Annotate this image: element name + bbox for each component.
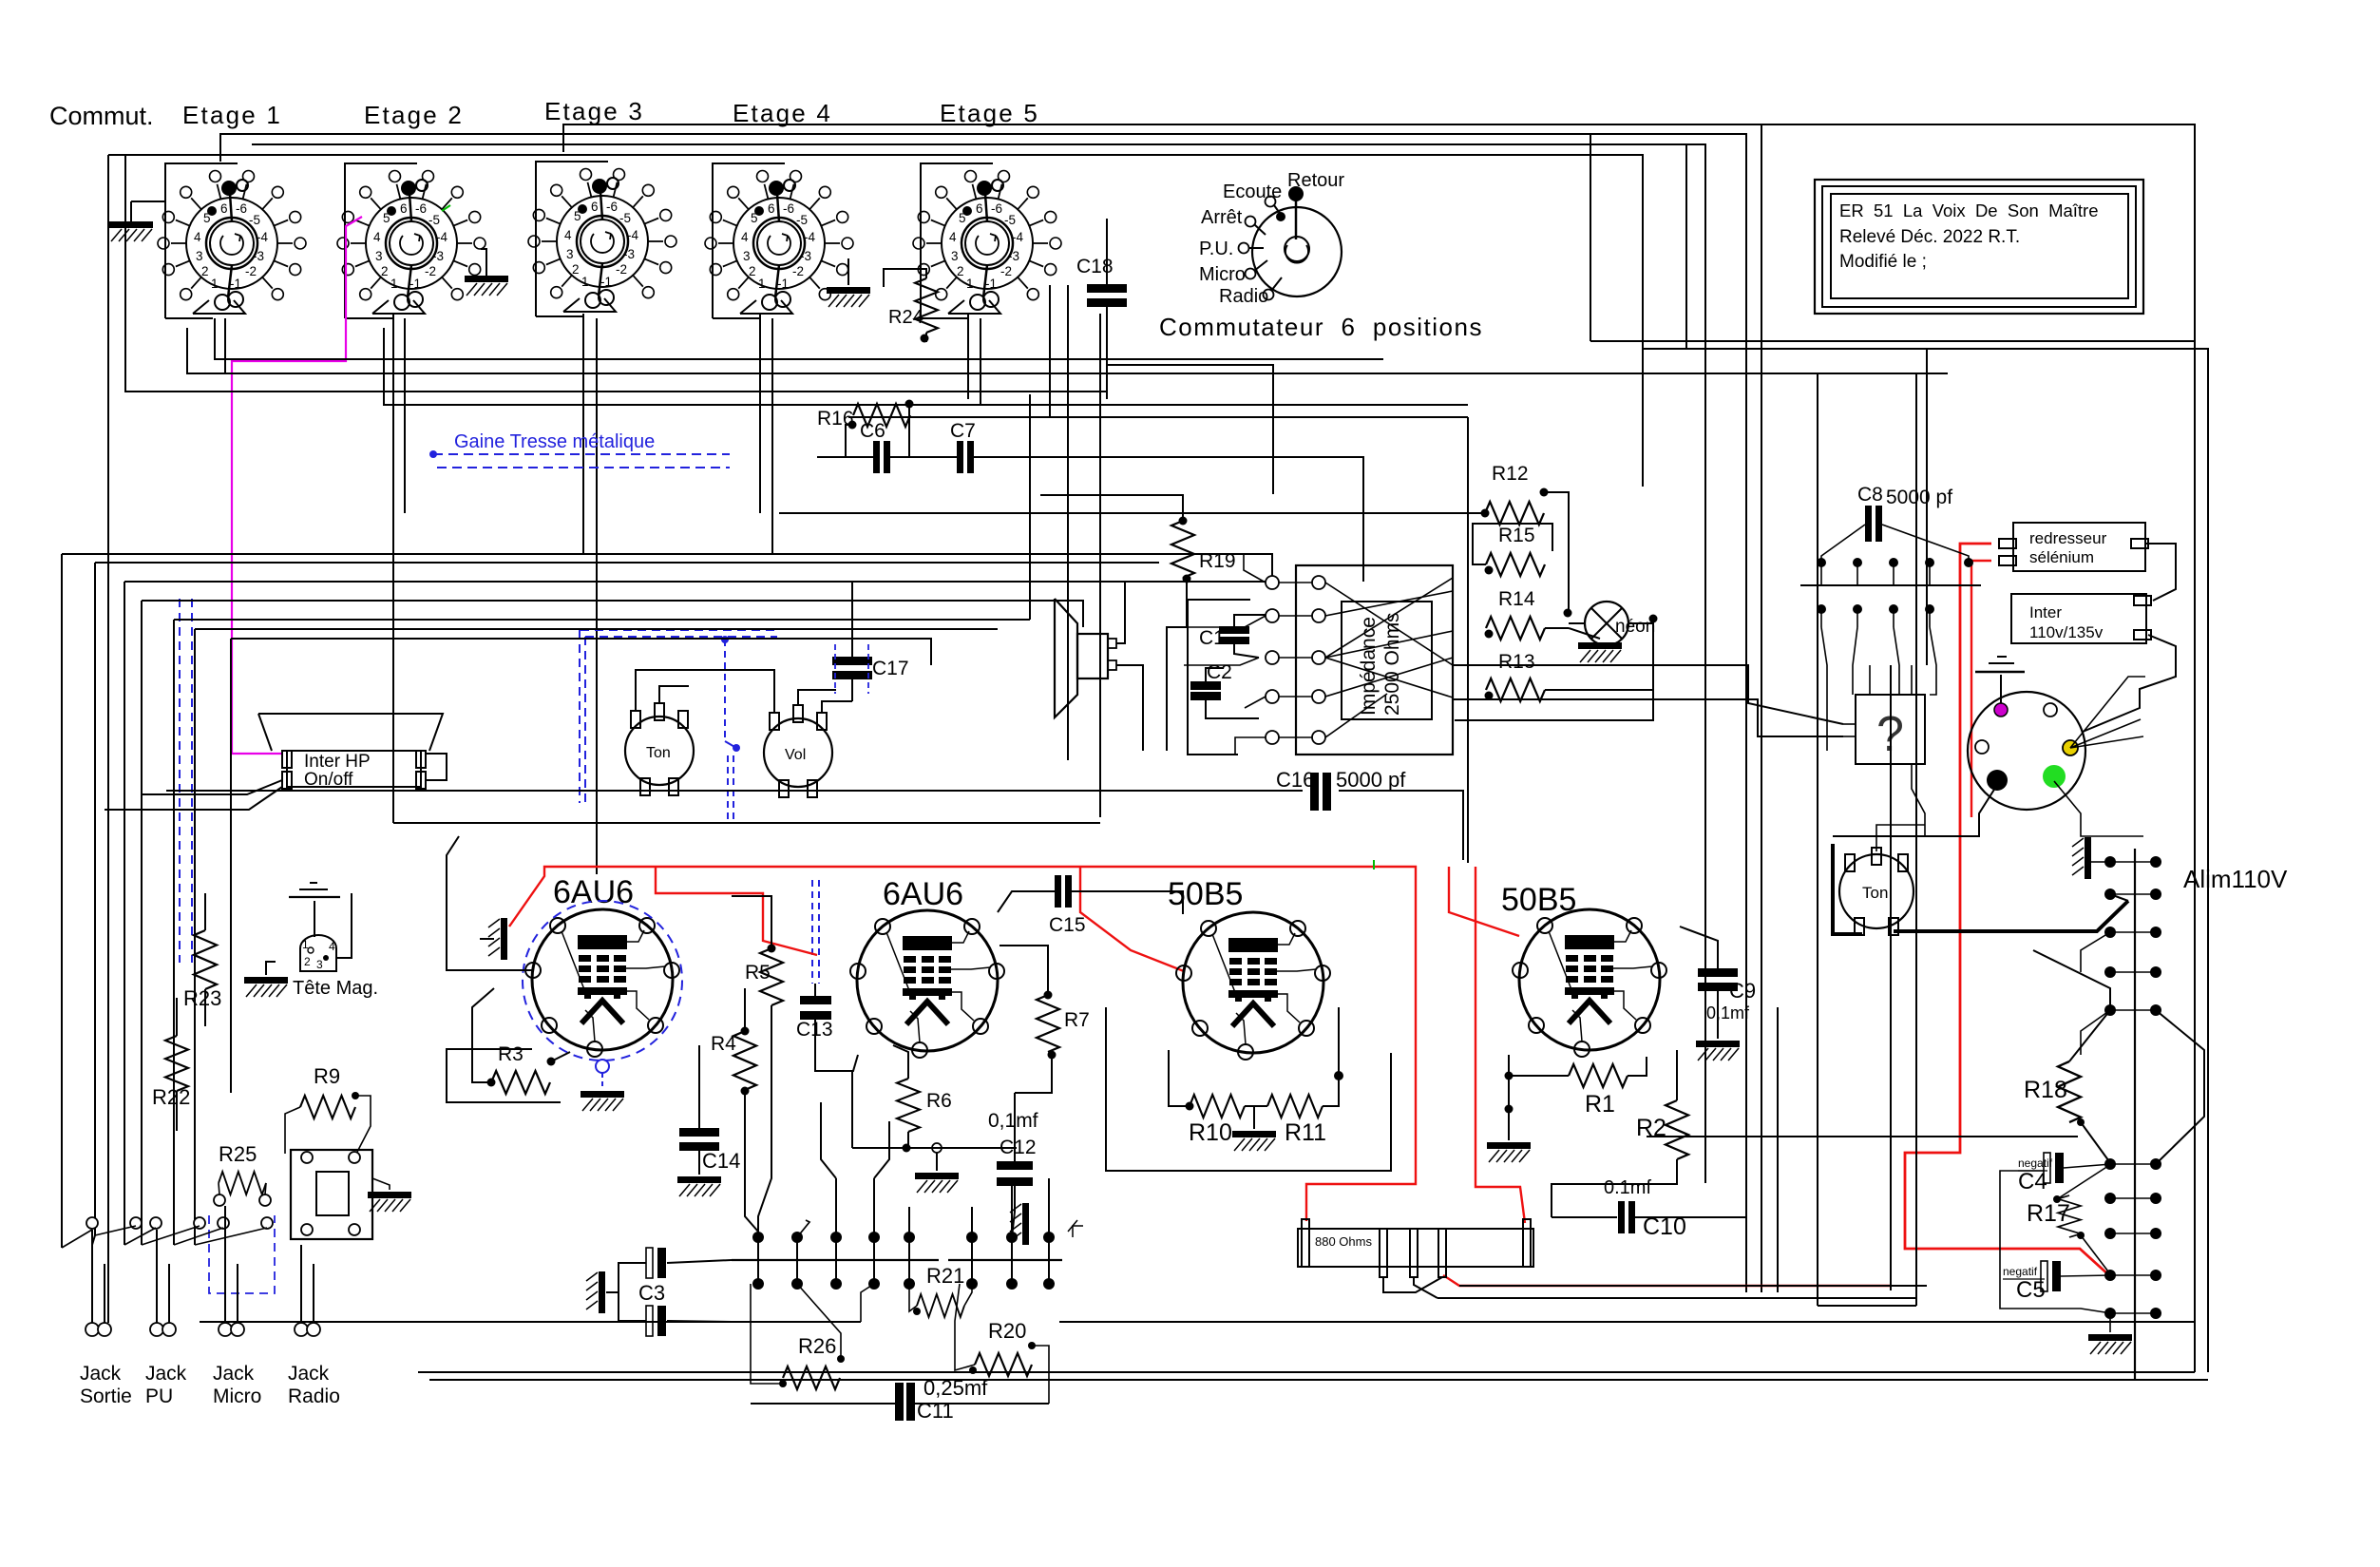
wire left bundle v1: [61, 554, 63, 1248]
wire bus below switches 1: [215, 318, 1383, 359]
tube V2 6AU6: [850, 910, 1004, 1058]
wire mid right connectors: [1453, 665, 1843, 724]
wire C1 leads: [1234, 615, 1266, 626]
resistor R20: [975, 1353, 1032, 1376]
svg-text:Jack: Jack: [145, 1363, 187, 1385]
ground bottom of column: [2109, 1319, 2111, 1332]
wire left bundle v7: [230, 639, 232, 1093]
title box: [1815, 180, 2143, 314]
capacitor C10: [1618, 1201, 1635, 1233]
svg-text:Radio: Radio: [1219, 286, 1268, 307]
blue dashed drop to Vol: [721, 636, 729, 643]
svg-text:PU: PU: [145, 1385, 173, 1407]
svg-text:C8: C8: [1857, 484, 1883, 506]
svg-text:P.U.: P.U.: [1199, 239, 1233, 259]
svg-text:50B5: 50B5: [1501, 882, 1576, 918]
svg-text:R15: R15: [1498, 525, 1535, 546]
wire S1 drops: [224, 318, 226, 373]
wire R18 leads: [2069, 1010, 2110, 1061]
svg-text:C6: C6: [860, 420, 885, 442]
svg-text:Vol: Vol: [785, 747, 806, 763]
resistor R10: [1190, 1095, 1245, 1118]
Inter HP terminals: [282, 751, 292, 768]
wire mid bus 1: [62, 554, 1272, 576]
wire bottom long right: [1059, 1321, 2195, 1323]
wire C5 lead: [2061, 1275, 2111, 1276]
svg-text:Etage 2: Etage 2: [364, 101, 464, 129]
diagonals on column: [2081, 932, 2110, 972]
red wire main run: [509, 867, 1416, 1221]
commutator rotor Retour: [1295, 195, 1298, 239]
resistor 880 Ohms box: [1298, 1229, 1533, 1267]
enclosure switch 4: [713, 163, 785, 318]
wire S5 drop: [967, 314, 969, 399]
box Inter HP On/off: [287, 751, 421, 787]
svg-text:R4: R4: [711, 1033, 736, 1055]
wire Inter HP left leads: [141, 780, 282, 794]
resistor R23: [194, 930, 217, 989]
enclosure switch 3: [536, 162, 608, 316]
ground between R10 R11: [1253, 1106, 1255, 1129]
wire R21 ends: [909, 1284, 917, 1311]
Alim110V bus vertical: [2134, 849, 2136, 1380]
wire Tete Mag right: [336, 893, 352, 958]
blue dashed gamma horizontals: [581, 629, 777, 631]
red wire right column: [1905, 544, 2110, 1276]
wire top rail 3: [252, 144, 1705, 1183]
box mystery ?: [1856, 695, 1925, 764]
wire R23 leads: [204, 893, 206, 930]
capacitor C4: [2044, 1153, 2064, 1183]
svg-text:Alim110V: Alim110V: [2183, 865, 2288, 893]
wire C3 bracket: [619, 1263, 646, 1321]
wire R19 top: [1040, 495, 1183, 521]
switch arm second row: [2110, 894, 2128, 901]
wire R22 leads: [176, 998, 178, 1036]
resistor R1: [1569, 1064, 1628, 1087]
blue dashed circle around V1: [523, 901, 682, 1061]
svg-text:R11: R11: [1285, 1119, 1326, 1146]
wire mid bus 8 y540: [779, 512, 1485, 514]
svg-text:C11: C11: [917, 1399, 954, 1423]
jack PU: [150, 1323, 163, 1336]
wire tube3 box: [1106, 1007, 1391, 1171]
wire C10 leads: [1552, 1216, 1617, 1218]
wire Ton top: [1876, 825, 1925, 851]
svg-text:Radio: Radio: [288, 1385, 340, 1407]
svg-text:redresseur: redresseur: [2029, 529, 2107, 547]
svg-text:C9: C9: [1729, 979, 1756, 1003]
wire left bundle v5: [173, 620, 175, 1245]
tube V4 50B5: [1513, 909, 1666, 1057]
thick black wire Ton to bus: [1833, 844, 1862, 934]
svg-text:Micro: Micro: [213, 1385, 261, 1407]
svg-text:C3: C3: [638, 1281, 665, 1305]
wire neon right drop: [1455, 619, 1653, 720]
capacitor C7: [957, 441, 974, 473]
wire impedance left connections: [1244, 554, 1266, 583]
svg-text:Jack: Jack: [213, 1363, 255, 1385]
resistor R22: [165, 1036, 188, 1091]
svg-text:Tête Mag.: Tête Mag.: [293, 978, 378, 999]
svg-text:6AU6: 6AU6: [883, 876, 963, 912]
svg-text:110v/135v: 110v/135v: [2029, 623, 2104, 641]
svg-text:Etage 5: Etage 5: [940, 99, 1039, 127]
svg-text:Inter: Inter: [2029, 603, 2062, 621]
capacitor C2: [1190, 681, 1221, 690]
ground below R1: [1508, 1121, 1510, 1140]
svg-text:5000 pf: 5000 pf: [1886, 487, 1952, 508]
resistor R2: [1666, 1100, 1688, 1159]
wire left bundle v4: [141, 601, 143, 1245]
wire tube3 plate drop: [1338, 1007, 1340, 1076]
svg-text:sélénium: sélénium: [2029, 548, 2094, 566]
wire left bundle v2: [92, 563, 95, 1245]
potentiometer Ton: [625, 717, 694, 785]
wire left outer vertical: [107, 155, 109, 1323]
wire R5 drop: [758, 1045, 771, 1237]
potentiometer Vol: [764, 718, 832, 787]
wire S5 drop2: [1067, 285, 1069, 760]
svg-text:0,1mf: 0,1mf: [988, 1110, 1038, 1132]
svg-text:R13: R13: [1498, 651, 1535, 673]
ground right of switch 4 (near R24): [847, 258, 849, 285]
resistor R9: [300, 1096, 355, 1118]
wire C4 C5 bracket: [2000, 1171, 2111, 1313]
wire contact row bar: [732, 1259, 939, 1261]
svg-text:R16: R16: [817, 408, 854, 430]
svg-text:C12: C12: [1000, 1137, 1037, 1158]
Alim110V contact rows: [2104, 856, 2116, 868]
wire R20 ends: [955, 1284, 975, 1370]
svg-text:Micro: Micro: [1199, 264, 1246, 285]
wire inner top vertical 1674: [1590, 134, 1591, 341]
wire bus y384 to impedance: [1107, 365, 1273, 494]
enclosure switch 1: [165, 163, 238, 318]
wire R4 leads: [744, 988, 746, 1031]
svg-text:C16: C16: [1276, 768, 1314, 792]
wire R15 loop: [1473, 524, 1552, 564]
svg-text:6AU6: 6AU6: [553, 874, 634, 910]
small gnd symbol right of row: [1073, 1226, 1083, 1237]
wire S4 drop2: [771, 318, 773, 554]
resistor R14: [1486, 617, 1545, 640]
commutator contact Micro: [1246, 269, 1256, 279]
wire jack links: [62, 1230, 92, 1248]
hatched bar above row: [1010, 1203, 1029, 1245]
capacitor C9: [1698, 968, 1738, 991]
wire R24 top: [884, 269, 926, 287]
svg-text:R26: R26: [798, 1334, 836, 1358]
svg-text:Arrêt: Arrêt: [1201, 207, 1243, 228]
box jack radio switch: [291, 1150, 372, 1239]
svg-text:880 Ohms: 880 Ohms: [1315, 1234, 1372, 1249]
wire neon left: [1569, 622, 1585, 624]
rotary switch Etage 2: [337, 171, 486, 315]
svg-text:Jack: Jack: [288, 1363, 330, 1385]
impedance transformer box: [1296, 565, 1453, 755]
blue dashed pair top: [429, 450, 437, 458]
wire C15 leads: [998, 891, 1055, 912]
svg-text:R3: R3: [498, 1043, 524, 1065]
wire bottom right frame: [418, 1371, 2195, 1373]
wire top rail 1: [563, 124, 2195, 1372]
svg-text:2: 2: [304, 955, 311, 968]
power socket circle: [1968, 692, 2085, 810]
capacitor C12: [997, 1161, 1033, 1170]
resistor R19: [1171, 521, 1194, 578]
svg-text:2500 Ohms: 2500 Ohms: [1381, 612, 1403, 716]
rotary switch Etage 5: [913, 171, 1061, 315]
wire R17 leads: [2057, 1164, 2111, 1199]
red wire branch tube2: [656, 867, 817, 955]
impedance crossing wires: [1325, 583, 1453, 665]
capacitor C14: [698, 1045, 700, 1129]
wire V1 left box: [447, 836, 532, 970]
svg-text:Ton: Ton: [1862, 884, 1888, 902]
wire R16 leads: [846, 425, 852, 457]
wire left bundle v3: [124, 582, 125, 1245]
arrow tick on column 2: [797, 1220, 809, 1237]
wire Inter HP right: [426, 754, 447, 780]
capacitor C16: [1310, 773, 1319, 811]
rotary commutator 6 positions: [1252, 207, 1342, 296]
svg-text:1: 1: [302, 938, 309, 951]
ground near switch 1: [130, 201, 132, 221]
wire Vol leads: [822, 701, 852, 712]
capacitor C5: [2041, 1261, 2061, 1291]
wire socket bottom leads: [1833, 785, 1997, 836]
resistor R16: [853, 404, 910, 427]
svg-text:50B5: 50B5: [1168, 876, 1243, 912]
commutator contact Ecoute: [1266, 197, 1276, 207]
potentiometer Ton right: [1839, 854, 1914, 928]
wire bus below switches 2: [187, 328, 1948, 373]
Inter HP top trapezoid: [258, 714, 443, 751]
svg-text:C15: C15: [1049, 914, 1086, 936]
neon lamp: [1585, 602, 1628, 645]
wire R26 ends: [751, 1284, 783, 1384]
commutator contact Radio: [1264, 290, 1274, 300]
resistor R5: [760, 948, 783, 1005]
battery ground above socket: [2000, 675, 2002, 707]
ground near neon: [1578, 642, 1622, 662]
wire C8 crossbar: [1800, 584, 1981, 586]
resistor R3: [491, 1071, 550, 1094]
red wire branch tube3: [1080, 867, 1184, 971]
wire R12 right: [1544, 492, 1569, 613]
svg-text:C1: C1: [1199, 627, 1225, 649]
svg-text:R14: R14: [1498, 588, 1535, 610]
capacitor C11: [895, 1383, 904, 1421]
wire S4 drop: [759, 314, 761, 513]
tube V3 50B5: [1176, 912, 1330, 1060]
blue dashed around micro jack: [209, 1215, 275, 1293]
ground left of C3: [586, 1271, 605, 1313]
capacitor C3 lower: [646, 1306, 666, 1336]
wire verticals above row: [757, 1216, 759, 1237]
svg-text:R18: R18: [2024, 1077, 2067, 1103]
blue dashed vertical pair left: [179, 599, 181, 963]
svg-text:Commutateur 6 positions: Commutateur 6 positions: [1159, 313, 1483, 341]
wire inner top vertical 1775: [1685, 144, 1687, 349]
enclosure switch 2: [345, 163, 417, 318]
svg-text:R5: R5: [745, 962, 771, 984]
rotary switch Etage 4: [705, 171, 853, 315]
capacitor C13: [800, 996, 831, 1004]
svg-text:Modifié le ;: Modifié le ;: [1839, 252, 1927, 272]
wire C8 column drops: [1821, 627, 1827, 751]
wire R6 top: [893, 1045, 908, 1079]
svg-text:0,1mf: 0,1mf: [1706, 1003, 1750, 1022]
capacitor C3 upper: [646, 1248, 666, 1278]
svg-text:negatif: negatif: [2003, 1265, 2038, 1278]
hatched bar left of V1: [488, 918, 507, 960]
C8 switch rows: [1817, 558, 1826, 567]
svg-text:4: 4: [329, 940, 335, 953]
wire mid bus 5: [174, 619, 1030, 621]
green tick 2: [1373, 860, 1375, 869]
svg-text:R17: R17: [2027, 1200, 2070, 1227]
wire vertical 1545: [1467, 417, 1469, 863]
tube V1 6AU6: [525, 909, 679, 1057]
ground below V1: [581, 1091, 624, 1111]
resistor R18: [2058, 1061, 2081, 1122]
svg-text:Ecoute: Ecoute: [1223, 182, 1282, 202]
wire inner top vertical 1854: [1761, 124, 1762, 1292]
resistor R25: [219, 1172, 266, 1194]
wire C13 leads: [814, 984, 816, 996]
wire R13 right to neon: [1545, 623, 1653, 690]
svg-text:C18: C18: [1076, 256, 1114, 277]
resistor R12: [1485, 502, 1544, 525]
wire mid bus 9 y829: [166, 790, 1303, 792]
wire C4 lead: [2064, 1164, 2111, 1168]
wire S2 drop2: [404, 318, 406, 513]
svg-text:Jack: Jack: [80, 1363, 122, 1385]
resistor R7: [1037, 995, 1059, 1052]
svg-text:R10: R10: [1189, 1119, 1232, 1146]
wire C9 leads: [1680, 927, 1718, 968]
wire R3 leads: [472, 988, 494, 1082]
svg-text:5000 pf: 5000 pf: [1336, 768, 1406, 792]
wire bus y412: [125, 155, 1107, 392]
resistor R15: [1486, 553, 1545, 576]
box redresseur selenium: [2013, 523, 2145, 571]
resistor R24: [915, 278, 938, 333]
red wire lower right: [1443, 1275, 1891, 1286]
wire S3 drop: [582, 314, 584, 554]
resistor R26: [783, 1366, 840, 1389]
commutator contact Arrêt: [1246, 217, 1256, 227]
wire right verticals bundle: [1777, 1007, 1779, 1292]
ground below C9: [1696, 1041, 1740, 1061]
wire Ton-Vol bridge: [636, 670, 774, 712]
wire right loop: [2156, 1010, 2204, 1164]
wire mid bus 6: [195, 628, 998, 630]
svg-text:R6: R6: [926, 1090, 952, 1112]
resistor R11: [1267, 1095, 1323, 1118]
wire mid-right rail 1: [1590, 340, 2194, 342]
wire C12 leads: [1014, 1093, 1016, 1161]
wire R2 leads: [1676, 1050, 1678, 1100]
resistor R13: [1486, 678, 1545, 701]
svg-text:Sortie: Sortie: [80, 1385, 132, 1407]
svg-text:R19: R19: [1199, 550, 1236, 572]
battery ground above Tete Mag: [314, 901, 315, 937]
ground left of Tete Mag: [266, 962, 276, 975]
wire speaker leads: [1116, 582, 1125, 643]
svg-text:Relevé Déc. 2022 R.T.: Relevé Déc. 2022 R.T.: [1839, 227, 2020, 247]
wire R5 leads: [732, 896, 771, 948]
wire socket fan: [2070, 677, 2145, 748]
jack Sortie: [86, 1323, 99, 1336]
rotary switch Etage 3: [528, 169, 676, 313]
wire magenta from switch2 to Inter HP: [232, 217, 362, 754]
svg-text:Inter HP: Inter HP: [304, 752, 371, 772]
svg-text:R9: R9: [314, 1064, 340, 1088]
wire S3 drop2: [596, 318, 598, 874]
wire S5 extra drop: [980, 318, 981, 405]
capacitor C6: [873, 441, 890, 473]
svg-text:Ton: Ton: [646, 745, 671, 761]
jack Micro: [219, 1323, 232, 1336]
ground below R6: [936, 1153, 938, 1171]
wire C17 vertical: [851, 582, 853, 657]
wire mid bus 2: [95, 562, 1159, 564]
red wire redresseur stub: [1971, 561, 1991, 817]
blue dashed pair left of Vol: [727, 755, 729, 819]
svg-text:0.1mf: 0.1mf: [1604, 1177, 1651, 1198]
svg-text:R25: R25: [219, 1142, 257, 1166]
red wire branch tube4: [1449, 867, 1519, 936]
svg-text:R12: R12: [1492, 463, 1529, 485]
capacitor C15: [1055, 875, 1072, 908]
rotary switch Etage 1: [158, 171, 306, 315]
svg-text:negatif: negatif: [2018, 1156, 2053, 1170]
capacitor C17: [832, 657, 872, 679]
svg-text:R20: R20: [988, 1319, 1026, 1343]
wire 880 box bottom: [1383, 1277, 1442, 1292]
ground top of column: [2072, 837, 2091, 879]
ground right of box: [372, 1178, 390, 1190]
green tick 1: [442, 205, 450, 211]
ground right of switch 2: [481, 249, 486, 276]
wire V1 bottom bus: [447, 1049, 561, 1102]
wire mid bus 3: [124, 581, 1266, 583]
svg-text:Commut.: Commut.: [49, 102, 154, 130]
wire mid bus 7: [231, 639, 931, 665]
wire redresseur right: [2145, 544, 2176, 601]
svg-text:Etage 3: Etage 3: [544, 97, 644, 125]
wire C8 leads: [1821, 525, 1865, 563]
wire R9 leads: [285, 1107, 300, 1154]
wire bottom long y1391: [200, 1321, 861, 1323]
wire C11 leads: [751, 1403, 895, 1405]
Tete Mag head: [300, 935, 336, 971]
red wire to 880 right: [1476, 867, 1525, 1223]
svg-text:R22: R22: [152, 1085, 190, 1109]
wire C3 right leads: [667, 1260, 732, 1263]
svg-text:C14: C14: [702, 1149, 740, 1173]
wire mid bus 4: [142, 601, 1083, 627]
svg-text:C4: C4: [2018, 1169, 2047, 1194]
wire R10 R11 joins: [1245, 1105, 1267, 1107]
switch contact rows bottom middle: [752, 1232, 764, 1243]
wire C2 leads: [1206, 668, 1224, 681]
wire bus y439b: [848, 416, 1468, 418]
wire top rail 2: [220, 134, 1746, 1292]
